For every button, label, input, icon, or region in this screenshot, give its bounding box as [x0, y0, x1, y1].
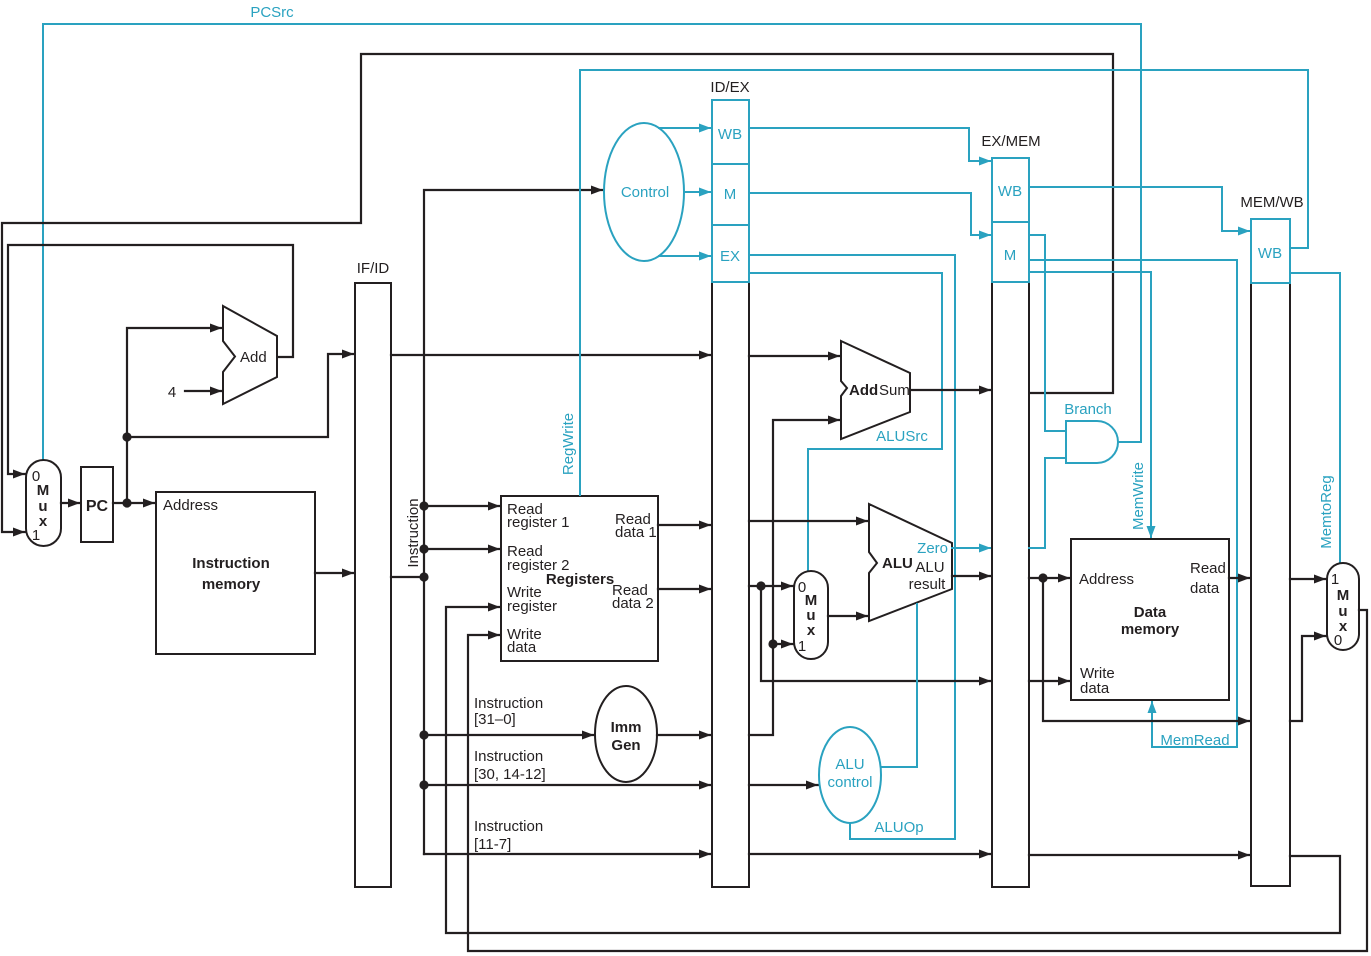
wire read data 2 to ID/EX	[658, 588, 711, 590]
svg-text:M: M	[724, 186, 737, 203]
svg-text:WB: WB	[998, 183, 1022, 200]
wire branch/ALU result address to data memory	[1029, 577, 1070, 579]
wire Control to ID/EX M	[684, 191, 711, 193]
wire instruction bus out of IF/ID	[391, 576, 424, 578]
alu ALU	[869, 504, 952, 621]
svg-text:Instruction: Instruction	[405, 498, 422, 567]
svg-text:Address: Address	[163, 497, 218, 514]
svg-text:register 1: register 1	[507, 514, 570, 531]
wire MEM/WB read data to mux M3 input 1	[1290, 578, 1326, 580]
mux M3 (write-back mux)	[1327, 563, 1359, 650]
svg-text:Data: Data	[1134, 604, 1167, 621]
register MEM/WB	[1251, 283, 1290, 886]
adder Add Sum	[841, 341, 910, 439]
svg-text:Instruction: Instruction	[474, 695, 543, 712]
registers file	[501, 496, 658, 661]
wire write register number back to Registers	[446, 607, 1340, 933]
wire instruction [11-7] to ID/EX	[424, 853, 711, 855]
wire instruction [11-7] EX/MEM to MEM/WB	[1029, 854, 1250, 856]
svg-text:1: 1	[1331, 571, 1339, 588]
wire MemRead (EX/MEM M to data memory)	[1029, 260, 1237, 747]
wire RegWrite (MEM/WB WB to Registers)	[580, 70, 1308, 495]
svg-text:WB: WB	[718, 126, 742, 143]
svg-text:IF/ID: IF/ID	[357, 260, 390, 277]
svg-text:Read: Read	[1190, 560, 1226, 577]
svg-text:Add: Add	[849, 382, 878, 399]
wire PC value to IF/ID	[127, 354, 354, 437]
wire ALUSrc (ID/EX EX to mux M2)	[749, 273, 942, 570]
svg-text:EX/MEM: EX/MEM	[981, 133, 1040, 150]
svg-text:ALUSrc: ALUSrc	[876, 428, 928, 445]
wire ALU control to ALU	[881, 604, 917, 767]
svg-text:0: 0	[1334, 632, 1342, 649]
svg-text:Instruction: Instruction	[474, 748, 543, 765]
wire Zero flag to EX/MEM	[952, 547, 991, 549]
oval Control	[604, 123, 684, 261]
wire instruction [30,14-12] to ID/EX	[424, 784, 711, 786]
wire PCSrc (AND output up and across to PC mux)	[43, 24, 1141, 459]
svg-text:Instruction: Instruction	[192, 555, 270, 572]
wire instruction to read register 1	[424, 505, 500, 507]
svg-text:data 2: data 2	[612, 595, 654, 612]
svg-text:EX: EX	[720, 248, 740, 265]
svg-text:M: M	[1337, 587, 1350, 604]
svg-text:[11-7]: [11-7]	[474, 836, 511, 853]
wire PC value ID/EX to Add Sum	[749, 355, 840, 357]
svg-text:x: x	[807, 622, 816, 639]
svg-text:Branch: Branch	[1064, 401, 1112, 418]
wire branch target (EX/MEM back to PC mux input 1)	[2, 54, 1113, 532]
junction instruction bus	[419, 572, 428, 581]
wire write data to data memory	[1029, 680, 1070, 682]
svg-text:MemWrite: MemWrite	[1130, 462, 1147, 530]
wire read data 1 ID/EX to ALU	[749, 520, 868, 522]
wire instruction vertical bus and branch to Control	[424, 190, 603, 854]
svg-text:Add: Add	[240, 349, 267, 366]
wire instruction [31-0] to Imm Gen	[424, 734, 594, 736]
gate AND (branch)	[1066, 421, 1118, 463]
wire MemWrite (EX/MEM M to data memory)	[1029, 272, 1151, 538]
svg-text:Control: Control	[621, 184, 669, 201]
svg-text:Registers: Registers	[546, 571, 614, 588]
svg-text:Instruction: Instruction	[474, 818, 543, 835]
svg-text:memory: memory	[1121, 621, 1180, 638]
wire PC value up to Add input	[127, 328, 222, 503]
wire instruction memory output to IF/ID	[315, 572, 354, 574]
adder Add	[223, 306, 277, 404]
svg-text:PCSrc: PCSrc	[250, 4, 294, 21]
instruction memory	[156, 492, 315, 654]
wire read data 2 ID/EX to mux M2 and down to EX/MEM	[749, 585, 793, 587]
oval ALU control	[819, 727, 881, 823]
wire MemtoReg (MEM/WB WB to mux M3)	[1290, 273, 1340, 562]
svg-text:[30, 14-12]: [30, 14-12]	[474, 766, 546, 783]
wire read data 1 to ID/EX	[658, 524, 711, 526]
wire PC output to instruction memory	[113, 502, 155, 504]
wire mux M2 output to ALU	[828, 615, 868, 617]
wire Control to ID/EX EX	[659, 255, 711, 257]
register ID/EX	[712, 282, 749, 887]
svg-text:control: control	[827, 774, 872, 791]
wire constant 4 to Add	[185, 390, 222, 392]
svg-text:data: data	[507, 639, 537, 656]
svg-text:MemRead: MemRead	[1160, 732, 1229, 749]
wire Imm Gen output to ID/EX	[657, 734, 711, 736]
wire EX/MEM WB to MEM/WB WB	[1029, 187, 1250, 231]
mux M2 (ALU source mux)	[794, 571, 828, 659]
svg-text:ALU: ALU	[835, 756, 864, 773]
wire ID/EX WB to EX/MEM WB	[749, 128, 991, 161]
wire Control to ID/EX WB	[659, 127, 711, 129]
register PC	[81, 467, 113, 542]
svg-text:[31–0]: [31–0]	[474, 711, 516, 728]
wire Zero to AND gate	[1029, 458, 1066, 548]
wire Branch signal to AND gate	[1029, 235, 1066, 431]
svg-text:1: 1	[32, 527, 40, 544]
svg-text:Address: Address	[1079, 571, 1134, 588]
svg-text:4: 4	[168, 384, 176, 401]
wire Add Sum output to EX/MEM	[910, 389, 991, 391]
svg-text:WB: WB	[1258, 245, 1282, 262]
register IF/ID	[355, 283, 391, 887]
wire immediate ID/EX to Add Sum and mux M2	[749, 420, 840, 735]
wire ALU result bypass to MEM/WB	[1043, 578, 1250, 721]
wire ALU result to EX/MEM	[952, 575, 991, 577]
mux M1 (PC source mux)	[26, 460, 61, 546]
svg-text:Gen: Gen	[611, 737, 640, 754]
wire instruction [11-7] ID/EX to EX/MEM	[749, 853, 991, 855]
data memory	[1071, 539, 1229, 700]
svg-text:MemtoReg: MemtoReg	[1318, 475, 1335, 548]
svg-text:memory: memory	[202, 576, 261, 593]
wire write-back data to Registers write data	[468, 610, 1367, 951]
svg-text:data 1: data 1	[615, 524, 657, 541]
register EX/MEM	[992, 282, 1029, 887]
svg-text:Imm: Imm	[611, 719, 642, 736]
svg-text:1: 1	[798, 638, 806, 655]
svg-text:register: register	[507, 598, 557, 615]
wire PC+4 loop (Add output to PC mux input 0)	[8, 245, 293, 474]
junction PC output	[122, 498, 131, 507]
svg-text:M: M	[1004, 247, 1017, 264]
svg-text:RegWrite: RegWrite	[560, 413, 577, 475]
svg-text:ALUOp: ALUOp	[874, 819, 923, 836]
svg-text:ID/EX: ID/EX	[710, 79, 749, 96]
svg-text:data: data	[1190, 580, 1220, 597]
wire mux M1 output to PC	[61, 502, 80, 504]
svg-text:MEM/WB: MEM/WB	[1240, 194, 1303, 211]
wire MEM/WB ALU result to mux M3 input 0	[1290, 636, 1326, 721]
wire instruction to read register 2	[424, 548, 500, 550]
svg-text:ALU: ALU	[882, 555, 913, 572]
svg-text:Sum: Sum	[879, 382, 910, 399]
svg-text:result: result	[909, 576, 947, 593]
junction PC tap	[122, 432, 131, 441]
svg-text:Zero: Zero	[917, 540, 948, 557]
wire PC value IF/ID to ID/EX	[391, 354, 711, 356]
wire data memory read data to MEM/WB	[1229, 577, 1250, 579]
svg-text:data: data	[1080, 680, 1110, 697]
wire instruction [30,14-12] ID/EX to ALU control	[749, 784, 818, 786]
svg-text:ALU: ALU	[915, 559, 944, 576]
svg-text:PC: PC	[86, 498, 109, 515]
svg-text:M: M	[37, 482, 50, 499]
svg-text:x: x	[39, 513, 48, 530]
wire ALUOp (ID/EX EX to ALU control)	[749, 255, 955, 839]
wire ID/EX M to EX/MEM M	[749, 193, 991, 235]
oval Imm Gen	[595, 686, 657, 782]
